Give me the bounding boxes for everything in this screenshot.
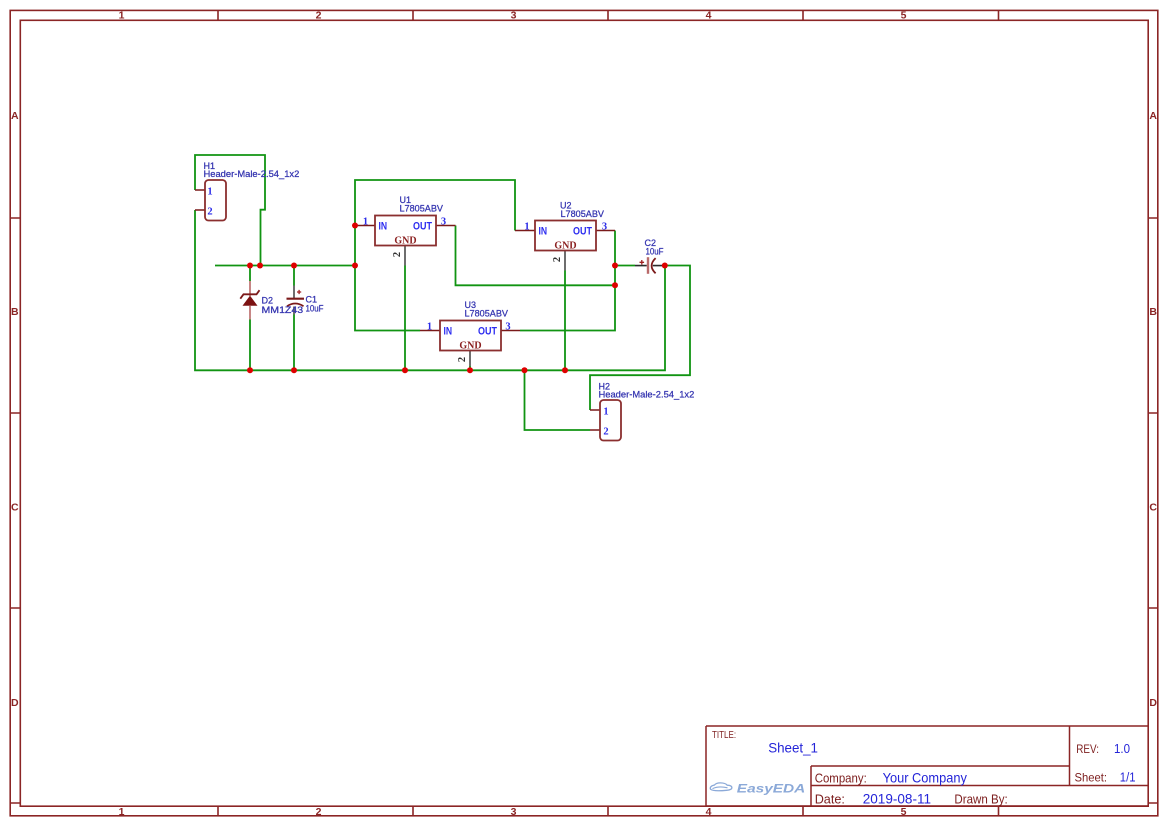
svg-text:A: A bbox=[11, 110, 19, 122]
svg-text:1: 1 bbox=[363, 216, 368, 227]
svg-text:1: 1 bbox=[524, 221, 529, 232]
svg-text:2019-08-11: 2019-08-11 bbox=[863, 791, 932, 807]
svg-text:REV:: REV: bbox=[1076, 742, 1099, 756]
svg-text:IN: IN bbox=[539, 225, 548, 237]
svg-text:1.0: 1.0 bbox=[1114, 741, 1130, 756]
svg-text:Company:: Company: bbox=[815, 770, 867, 785]
svg-text:MM1Z43: MM1Z43 bbox=[262, 305, 304, 315]
svg-text:3: 3 bbox=[441, 216, 446, 227]
svg-text:3: 3 bbox=[511, 806, 517, 818]
svg-text:2: 2 bbox=[392, 252, 403, 257]
svg-text:3: 3 bbox=[505, 321, 510, 332]
svg-text:TITLE:: TITLE: bbox=[712, 729, 736, 741]
svg-text:Your Company: Your Company bbox=[883, 769, 967, 785]
svg-text:B: B bbox=[1149, 306, 1157, 318]
svg-text:Header-Male-2.54_1x2: Header-Male-2.54_1x2 bbox=[599, 390, 695, 400]
svg-text:B: B bbox=[11, 306, 19, 318]
svg-text:10uF: 10uF bbox=[646, 247, 664, 257]
svg-text:2: 2 bbox=[207, 207, 212, 218]
svg-text:2: 2 bbox=[316, 806, 322, 818]
svg-text:D: D bbox=[11, 697, 19, 709]
svg-text:3: 3 bbox=[602, 221, 607, 232]
svg-text:2: 2 bbox=[552, 257, 563, 262]
svg-text:A: A bbox=[1149, 110, 1157, 122]
svg-text:2: 2 bbox=[457, 357, 468, 362]
svg-text:1: 1 bbox=[603, 407, 608, 418]
svg-text:GND: GND bbox=[459, 341, 481, 352]
svg-text:10uF: 10uF bbox=[306, 304, 324, 314]
svg-text:1: 1 bbox=[207, 187, 212, 198]
svg-text:L7805ABV: L7805ABV bbox=[400, 204, 444, 214]
svg-text:D2: D2 bbox=[262, 296, 274, 306]
svg-text:Header-Male-2.54_1x2: Header-Male-2.54_1x2 bbox=[204, 169, 300, 179]
svg-text:1: 1 bbox=[119, 806, 125, 818]
svg-text:OUT: OUT bbox=[478, 325, 497, 337]
svg-text:L7805ABV: L7805ABV bbox=[465, 309, 509, 319]
svg-text:2: 2 bbox=[603, 427, 608, 438]
svg-text:C: C bbox=[1149, 502, 1157, 514]
svg-text:Drawn By:: Drawn By: bbox=[954, 792, 1007, 807]
svg-text:OUT: OUT bbox=[573, 225, 592, 237]
svg-text:OUT: OUT bbox=[413, 220, 432, 232]
svg-text:4: 4 bbox=[706, 10, 712, 22]
svg-text:1/1: 1/1 bbox=[1120, 770, 1136, 785]
svg-text:3: 3 bbox=[511, 10, 517, 22]
svg-text:1: 1 bbox=[119, 10, 125, 22]
svg-text:GND: GND bbox=[554, 241, 576, 252]
svg-text:IN: IN bbox=[379, 220, 388, 232]
svg-text:5: 5 bbox=[901, 806, 907, 818]
svg-text:C: C bbox=[11, 502, 19, 514]
svg-text:4: 4 bbox=[706, 806, 712, 818]
svg-text:D: D bbox=[1149, 697, 1157, 709]
svg-text:1: 1 bbox=[427, 321, 432, 332]
svg-text:L7805ABV: L7805ABV bbox=[561, 209, 605, 219]
svg-text:Sheet:: Sheet: bbox=[1075, 771, 1108, 785]
svg-text:GND: GND bbox=[394, 236, 416, 247]
svg-text:2: 2 bbox=[316, 10, 322, 22]
svg-text:EasyEDA: EasyEDA bbox=[737, 783, 806, 795]
svg-text:IN: IN bbox=[444, 325, 453, 337]
svg-text:Sheet_1: Sheet_1 bbox=[768, 739, 818, 755]
svg-text:Date:: Date: bbox=[815, 792, 845, 807]
svg-text:5: 5 bbox=[901, 10, 907, 22]
